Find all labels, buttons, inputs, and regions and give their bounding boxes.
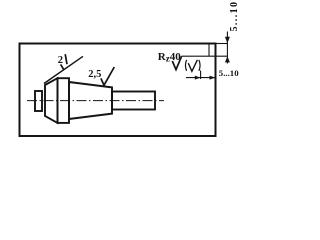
up arrowhead: [225, 56, 230, 62]
down arrowhead: [225, 37, 230, 44]
shaft cylinder (right end): [112, 92, 155, 110]
stub cylinder (left end): [35, 91, 42, 111]
flange rectangle: [58, 78, 70, 123]
horizontal reference line of corner symbol: [182, 55, 229, 57]
left arrowhead (points right): [195, 76, 201, 80]
roughness mark 2: long leader diagonal: [44, 56, 83, 83]
roughness mark 2: check left leg: [61, 64, 64, 69]
corner roughness check under Rz40: [172, 56, 181, 69]
svg-text:5...10: 5...10: [219, 68, 239, 78]
extension line below parenthesized check: [200, 71, 202, 80]
roughness mark 2: short stroke: [65, 54, 67, 64]
svg-text:Rz40: Rz40: [158, 51, 181, 64]
centerline (dash-dot axis): [27, 100, 164, 102]
parenthesized check: close paren: [199, 60, 200, 71]
drawing frame: [20, 44, 216, 137]
vertical connector line: [208, 44, 210, 57]
paper background: [0, 0, 251, 149]
svg-text:2,5: 2,5: [88, 69, 101, 80]
svg-text:5...10: 5...10: [229, 1, 240, 32]
roughness mark 2,5: check: [101, 67, 114, 85]
frame top edge extension: [216, 43, 229, 45]
chamfer ring (trapezoid): [45, 78, 58, 123]
parenthesized check: check mark: [188, 60, 197, 72]
vertical dimension line 5...10: [226, 32, 228, 64]
cone (tapered section): [69, 82, 112, 119]
right arrowhead (points right): [210, 76, 216, 80]
parenthesized check (rest of surfaces) : open paren: [185, 60, 186, 71]
horizontal dimension line with arrows: [186, 77, 215, 79]
